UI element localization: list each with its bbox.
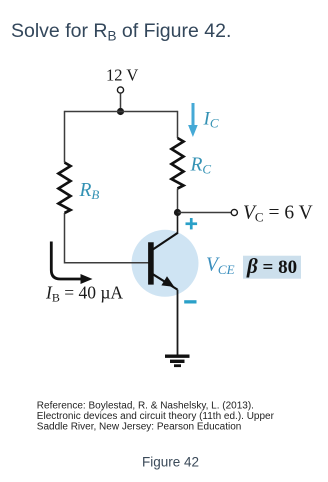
wire: collector node down to transistor <box>177 213 179 235</box>
wire: left branch from top rail to RB <box>64 111 66 163</box>
current arrow IC <box>188 103 198 137</box>
title: Solve for RB of Figure 42. <box>11 20 231 44</box>
label - (VCE polarity) <box>184 300 196 303</box>
transistor Q1 collector lead <box>153 233 178 250</box>
resistor RC <box>172 138 184 189</box>
reference text <box>37 401 275 433</box>
transistor Q1 (NPN) <box>151 233 178 290</box>
supply terminal (open circle) <box>117 87 123 93</box>
svg-text:IC: IC <box>203 109 219 131</box>
wire: supply terminal to top rail <box>120 93 122 111</box>
label + (VCE polarity) <box>186 218 198 229</box>
wire: collector node to VC terminal <box>178 212 232 214</box>
svg-text:Solve for RB of Figure 42.: Solve for RB of Figure 42. <box>11 20 231 44</box>
junction: supply node on top rail <box>117 108 124 115</box>
current arrow IB (hook) <box>51 242 83 280</box>
svg-text:β = 80: β = 80 <box>246 254 297 278</box>
svg-text:IB = 40 µA: IB = 40 µA <box>45 283 123 305</box>
svg-text:RB: RB <box>79 180 100 202</box>
transistor Q1 highlight circle <box>132 230 199 297</box>
junction: collector node <box>174 209 181 216</box>
svg-text:RC: RC <box>190 155 212 177</box>
svg-text:VC = 6 V: VC = 6 V <box>243 203 313 225</box>
transistor Q1 emitter arrowhead <box>161 276 174 287</box>
wire: top rail <box>65 111 178 113</box>
svg-text:Reference: Boylestad, R. & Nas: Reference: Boylestad, R. & Nashelsky, L.… <box>37 401 254 412</box>
resistor RB <box>59 163 71 214</box>
ground <box>165 356 190 366</box>
svg-text:VCE: VCE <box>206 255 235 278</box>
wire: RC to collector node <box>177 189 179 213</box>
svg-text:Electronic devices and circuit: Electronic devices and circuit theory (1… <box>37 411 275 422</box>
transistor Q1 emitter lead <box>153 274 178 289</box>
label beta = 80 (highlight box) <box>243 256 301 279</box>
wire: RB to base elbow <box>65 213 151 263</box>
wire: emitter to ground <box>177 290 179 356</box>
svg-text:Figure 42: Figure 42 <box>142 455 199 470</box>
svg-text:12 V: 12 V <box>106 66 138 85</box>
wire: right branch from top rail to RC <box>177 111 179 138</box>
transistor Q1 base bar <box>148 242 154 284</box>
svg-text:Saddle River, New Jersey: Pear: Saddle River, New Jersey: Pearson Educat… <box>37 421 242 432</box>
terminal VC (open circle) <box>231 209 237 215</box>
